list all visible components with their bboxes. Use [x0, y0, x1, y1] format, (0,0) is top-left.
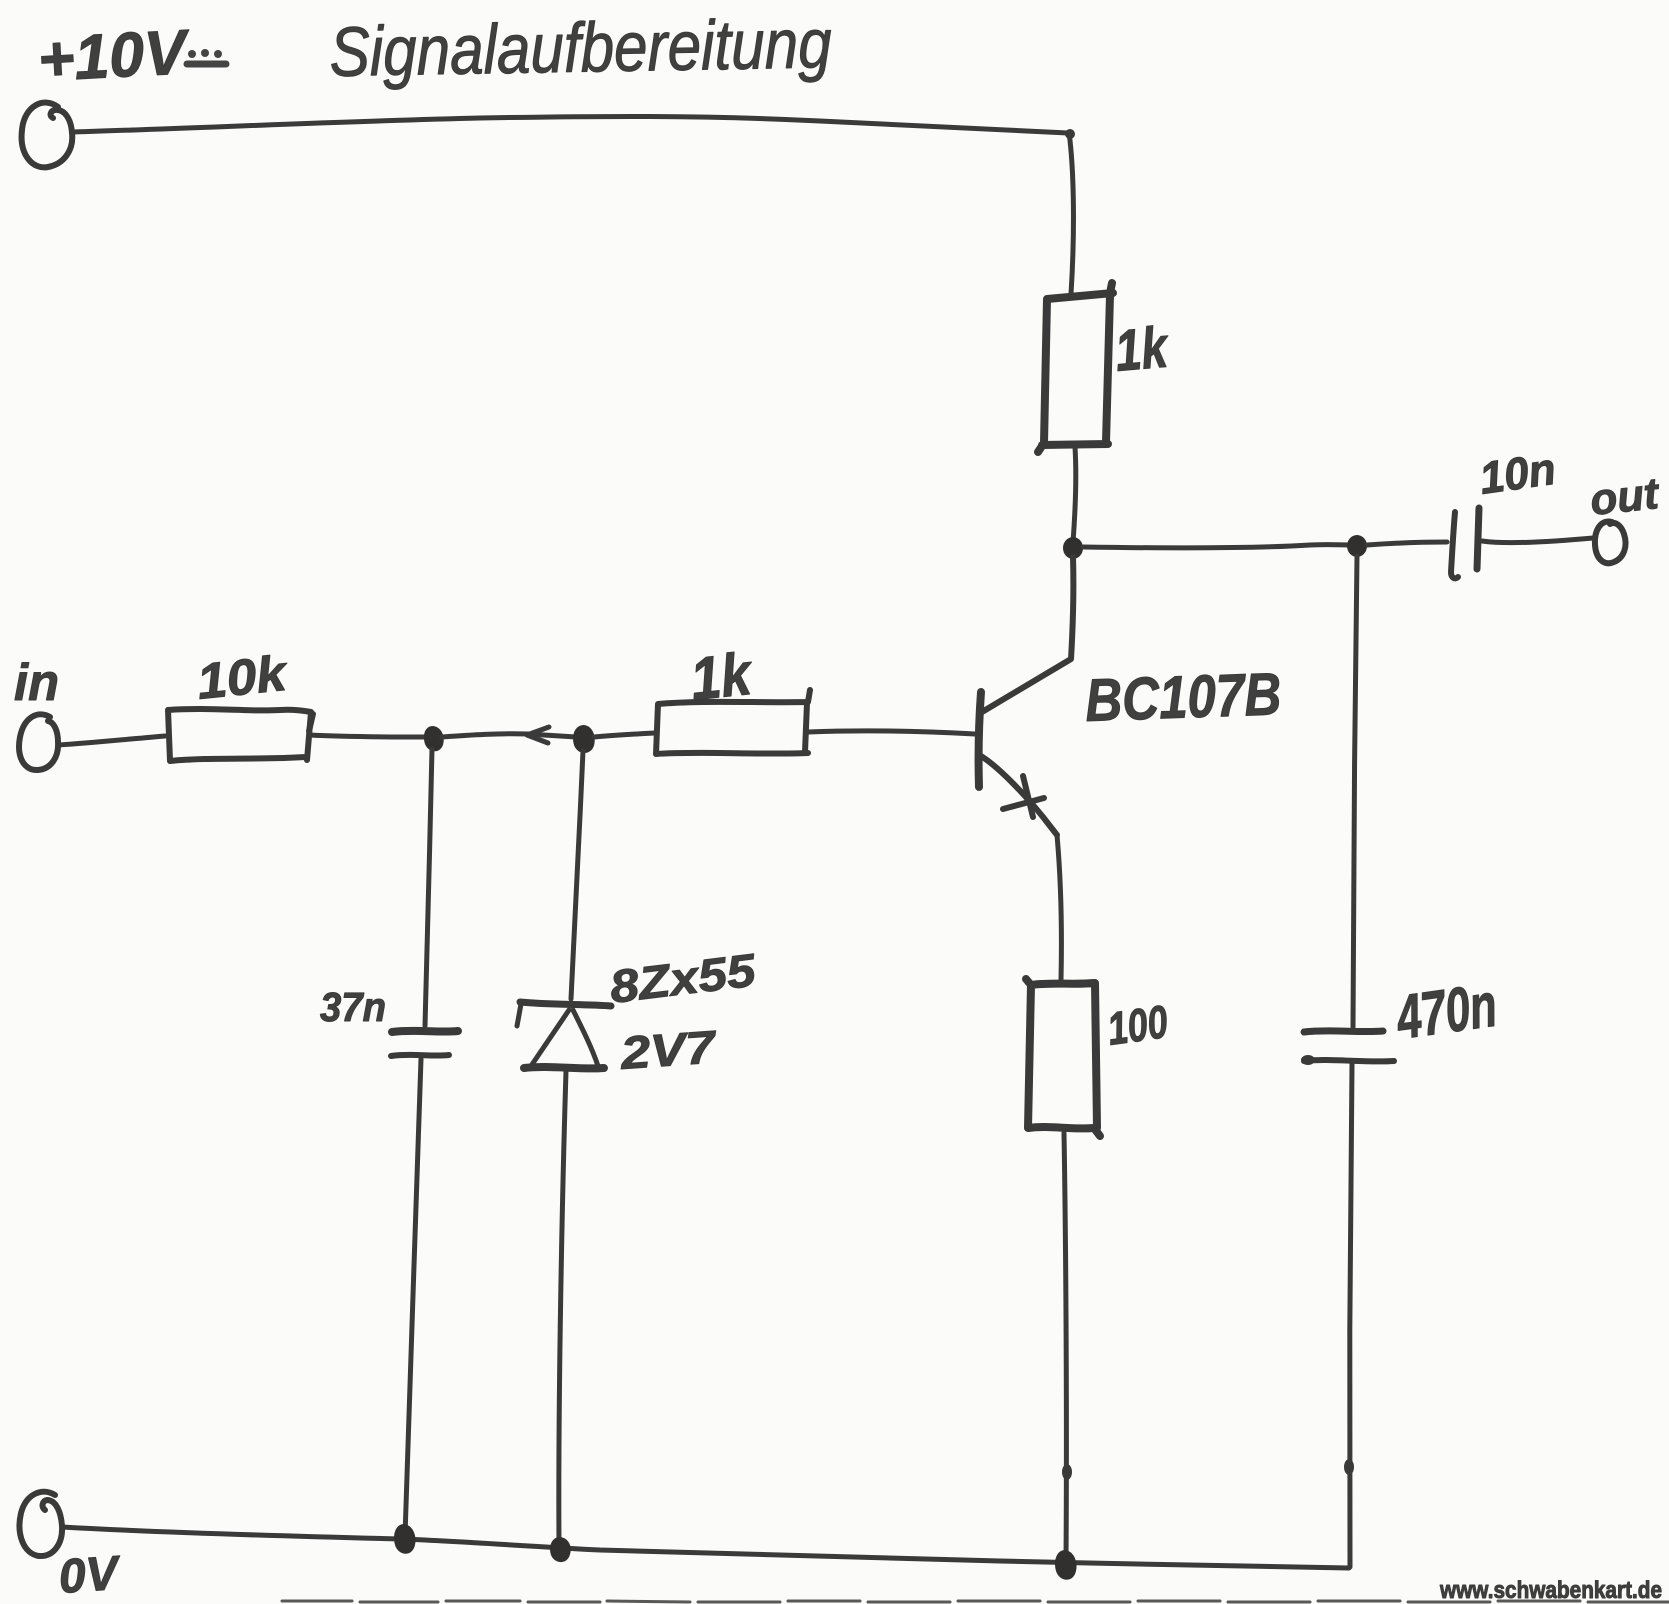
svg-text:10n: 10n — [1476, 443, 1558, 504]
DC symbol — [187, 49, 226, 64]
wire node B to R 1k — [594, 733, 655, 737]
wire R 1k to base — [808, 731, 975, 734]
resistor R 10k — [168, 709, 311, 761]
svg-text:37n: 37n — [320, 984, 386, 1030]
wire collector node to out branch — [1083, 545, 1352, 548]
svg-text:0V: 0V — [57, 1547, 124, 1604]
node ground emitter — [1055, 1550, 1077, 1580]
node ground A — [394, 1524, 416, 1554]
wire supply drop to R1 — [1069, 132, 1073, 294]
svg-text:100: 100 — [1104, 995, 1171, 1055]
svg-text:Signalaufbereitung: Signalaufbereitung — [329, 4, 832, 91]
svg-text:BC107B: BC107B — [1084, 660, 1282, 734]
transistor Q1 emitter — [981, 756, 1057, 835]
terminal +10V — [22, 103, 73, 168]
svg-text:2V7: 2V7 — [618, 1020, 719, 1079]
capacitor C 37n bottom plate — [391, 1055, 449, 1056]
wire node B down to zener — [571, 751, 583, 999]
scan artifact bottom edge — [282, 1601, 1669, 1602]
node collector junction — [1063, 537, 1083, 559]
capacitor C 37n top plate — [392, 1031, 458, 1032]
wire in to R 10k — [59, 736, 165, 745]
wire node A down to capacitor 37n — [425, 749, 432, 1026]
wire emitter to R 100 — [1057, 835, 1061, 980]
junction tick on 470n ground wire — [1344, 1459, 1354, 1475]
resistor R1 1k vertical — [1038, 283, 1113, 452]
node B — [573, 725, 595, 753]
wire ground bus — [62, 1527, 1349, 1568]
emitter arrowhead — [1003, 776, 1044, 817]
capacitor C 470n bottom plate — [1304, 1060, 1394, 1061]
wire capacitor to out terminal — [1482, 538, 1593, 543]
wire top supply — [74, 116, 1068, 133]
wire R 100 to ground bus — [1064, 1133, 1066, 1560]
svg-text:10k: 10k — [194, 645, 291, 710]
wire capacitor 470n to ground corner — [1350, 1064, 1352, 1567]
transistor Q1 base bar — [979, 692, 981, 787]
wire node A to node B with arrow — [442, 734, 576, 737]
svg-text:in: in — [14, 654, 59, 712]
wire out node to capacitor 10n — [1367, 542, 1447, 545]
transistor Q1 collector — [982, 557, 1073, 712]
svg-text:out: out — [1588, 469, 1663, 525]
zener D1 triangle — [531, 1010, 598, 1066]
terminal in — [19, 714, 58, 770]
node out branch junction — [1347, 535, 1367, 557]
terminal 0V — [20, 1492, 63, 1556]
node A — [424, 726, 444, 751]
capacitor C 470n top plate — [1304, 1031, 1383, 1032]
wire R1 to collector node — [1073, 447, 1076, 542]
wire capacitor 37n to ground bus — [405, 1059, 421, 1536]
node ground B — [550, 1537, 571, 1562]
svg-text:8Zx55: 8Zx55 — [607, 943, 760, 1013]
capacitor C 10n plates — [1451, 512, 1458, 578]
svg-text:1k: 1k — [1112, 314, 1172, 383]
terminal out — [1595, 522, 1626, 564]
arrow on base wire — [527, 727, 549, 743]
svg-text:470n: 470n — [1391, 971, 1501, 1053]
wire out node down to capacitor 470n — [1353, 556, 1357, 1027]
junction tick on emitter ground wire — [1062, 1464, 1072, 1480]
resistor R 1k horizontal — [656, 690, 810, 754]
resistor R 100 — [1026, 979, 1100, 1136]
svg-text:1k: 1k — [687, 640, 756, 713]
wire 10k to node A — [310, 735, 426, 737]
svg-text:+10V: +10V — [36, 17, 192, 95]
zener D1 cathode bar — [520, 1002, 611, 1006]
wire zener to ground bus — [559, 1071, 566, 1547]
